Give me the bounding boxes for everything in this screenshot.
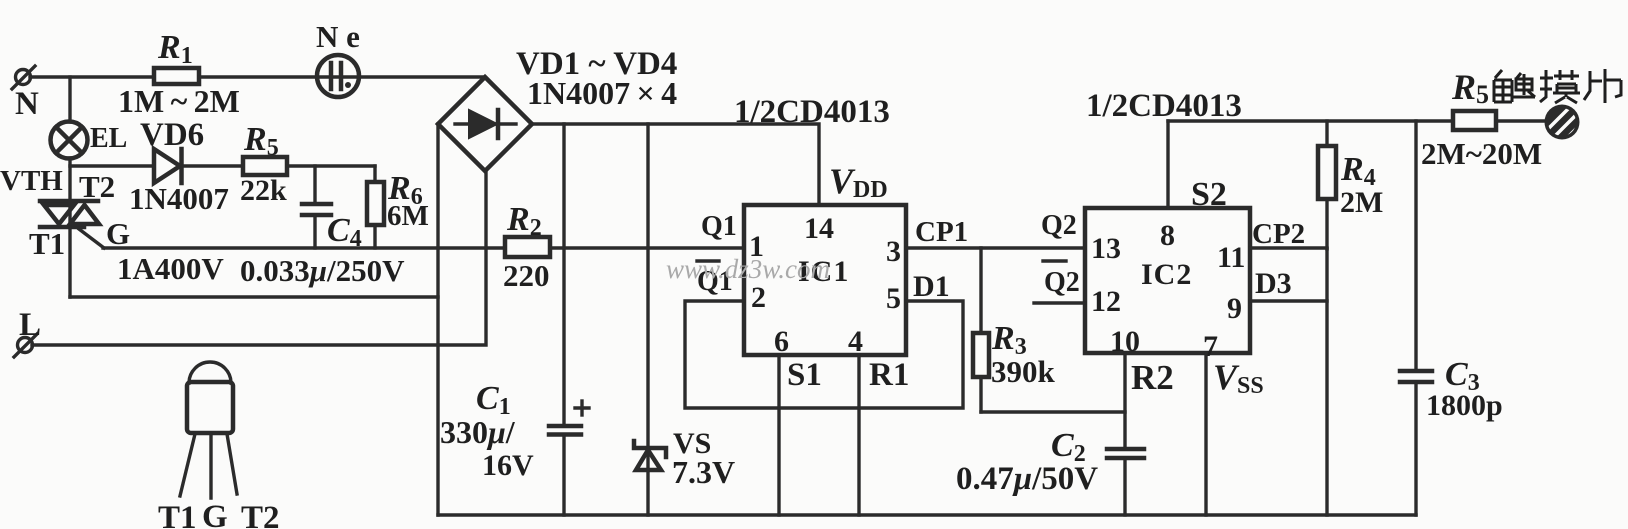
wire pin12 stub [1034,301,1085,304]
terminal N [12,66,39,122]
svg-text:R1: R1 [869,357,909,393]
wire gate to R2 [103,246,505,249]
wire D3 pin9 stub [1250,299,1327,302]
svg-text:VTH: VTH [0,165,63,197]
wire pin10 down through C2 [1123,353,1126,447]
wire Q1bar feedback loop pin2 to pin5 [685,301,963,408]
svg-text:8: 8 [1160,219,1175,252]
svg-text:11: 11 [1217,241,1245,274]
svg-text:1/2CD4013: 1/2CD4013 [1086,88,1242,124]
resistor R6 [367,166,429,248]
svg-text:CP1: CP1 [915,216,968,248]
wire bottom rail [438,513,1416,516]
svg-text:T1: T1 [29,226,65,261]
svg-text:Q2: Q2 [1044,267,1080,298]
wire pin4 R1 down [857,355,860,515]
wire R1 to bridge top [199,75,484,78]
svg-text:S2: S2 [1191,176,1227,213]
wire bridge left corner down to bottom rail [436,124,439,515]
wire L to bridge bottom [32,171,486,345]
transistor package TO-92 drawing [158,362,280,529]
wire DC+ rail to Vdd [532,124,819,205]
svg-text:4: 4 [848,325,863,358]
svg-text:N: N [15,86,39,122]
svg-text:330μ/: 330μ/ [440,414,516,450]
svg-text:1800p: 1800p [1426,389,1503,422]
svg-text:G: G [106,216,130,251]
IC1 box [744,205,906,358]
svg-text:N e: N e [316,19,360,54]
svg-text:22k: 22k [240,174,287,207]
wire CP1 pin3 to pin13 [906,246,1085,249]
node Q1bar pin2 label [697,261,733,297]
svg-text:2M~20M: 2M~20M [1421,136,1542,171]
capacitor C2 [956,427,1144,515]
svg-text:1N4007 × 4: 1N4007 × 4 [527,75,677,111]
wire S2 pin8 up [1166,121,1169,208]
svg-text:0.033μ/250V: 0.033μ/250V [240,253,405,288]
svg-text:R2: R2 [1131,358,1174,397]
svg-text:390k: 390k [991,354,1056,389]
svg-text:1M ~ 2M: 1M ~ 2M [118,83,240,119]
wire touch rail [1168,119,1453,122]
svg-text:Q2: Q2 [1041,210,1077,241]
wire R2 to pin1 [550,246,744,249]
wire R4/D3 vertical down to bottom rail [1325,249,1328,515]
touch plate symbol [1545,105,1587,147]
terminal L [14,307,41,357]
text 触摸片 (touch plate) [1494,69,1621,103]
wire touch rail corner down through C3 [1414,121,1417,369]
wire EL to triac [68,158,71,200]
svg-text:G: G [202,499,228,529]
resistor R1 [118,29,240,119]
svg-text:1/2CD4013: 1/2CD4013 [734,94,890,130]
capacitor C1 [440,124,589,515]
svg-text:VD6: VD6 [140,117,204,153]
svg-text:14: 14 [804,212,834,245]
lamp EL [51,122,128,159]
svg-text:D3: D3 [1255,267,1292,300]
resistor R3 390k [973,248,1056,412]
resistor R2 220 [503,201,550,293]
svg-text:2M: 2M [1340,186,1383,219]
capacitor C3 [1400,356,1503,515]
triac VTH [0,165,130,261]
svg-text:5: 5 [886,282,901,315]
bridge rectifier VD1-VD4 [438,46,677,171]
svg-text:9: 9 [1227,292,1242,325]
svg-text:220: 220 [503,258,550,293]
svg-text:2: 2 [751,281,766,314]
node Q2bar pin12 label [1043,261,1080,298]
resistor R4 2M [1318,121,1383,249]
wire N to R1 [30,75,154,78]
svg-text:D1: D1 [913,270,950,303]
wire triac T1 down [68,227,71,297]
svg-text:T2: T2 [241,500,280,529]
wire gate diagonal [79,229,104,248]
capacitor C4 [302,166,362,252]
svg-text:1A400V: 1A400V [117,251,224,286]
wire N junction down to EL [68,77,71,122]
wire R3 bottom to C2 node [981,410,1125,413]
svg-text:T2: T2 [79,169,115,204]
svg-text:L: L [19,307,41,343]
wire CP2 pin11 stub [1250,246,1327,249]
wire T1 horizontal to bridge-left vertical [70,295,438,298]
svg-text:CP2: CP2 [1252,218,1305,250]
svg-text:16V: 16V [482,449,534,482]
IC2 box [1085,208,1250,363]
diode VD6 [70,117,243,216]
zener VS [634,124,735,515]
wire R5 to R6 [287,164,375,167]
neon lamp Ne [316,19,360,97]
svg-text:S1: S1 [787,357,822,393]
svg-text:EL: EL [90,123,127,154]
svg-text:3: 3 [886,235,901,268]
resistor R5 touch 2M-20M [1421,67,1545,171]
svg-text:13: 13 [1091,232,1121,265]
wire pin7 Vss down [1204,353,1207,515]
resistor R5 22k [240,121,287,207]
svg-text:6: 6 [774,325,789,358]
svg-text:Q1: Q1 [701,211,737,242]
svg-text:1N4007: 1N4007 [129,181,229,216]
svg-text:T1: T1 [158,500,197,529]
svg-text:7.3V: 7.3V [672,454,735,490]
svg-text:IC2: IC2 [1141,258,1192,291]
svg-text:www.dz3w.com: www.dz3w.com [666,254,830,284]
wire pin6 S1 down [777,355,780,515]
svg-text:6M: 6M [387,200,429,232]
svg-text:0.47μ/50V: 0.47μ/50V [956,461,1098,497]
svg-text:12: 12 [1091,285,1121,318]
